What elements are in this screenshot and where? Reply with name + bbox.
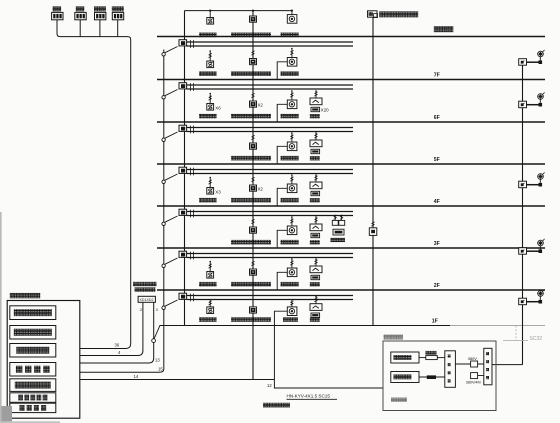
loop riser tap floor 6F [165, 90, 178, 96]
smoke detector 1F [207, 307, 214, 314]
wire from box b3 [99, 20, 101, 37]
stem smoke detector 1F [209, 299, 211, 307]
bus tick marks floor 4 [190, 168, 192, 176]
floor slab line above 6F [157, 79, 545, 81]
scan artifact bottom edge [0, 421, 60, 423]
hydrant symbol 5F [538, 174, 544, 180]
bus wire A floor 1 [187, 295, 353, 297]
wire from box b1 [56, 20, 58, 34]
bus wire B floor 7 [187, 45, 353, 47]
hydrant wire 7F [527, 104, 541, 106]
svg-text:X2: X2 [258, 102, 264, 107]
alarm bell 3F [287, 226, 297, 235]
bus wire A floor 7 [187, 41, 353, 43]
terminal box stub wires [80, 302, 143, 355]
riser bottom tap [154, 326, 160, 339]
damper module 1F [311, 313, 320, 317]
svg-text:4F: 4F [434, 199, 440, 205]
floor slab line above 7F [157, 36, 545, 38]
svg-text:X3: X3 [215, 190, 221, 195]
svg-text:XD1XD2: XD1XD2 [140, 298, 154, 302]
signal module floor 1 [179, 293, 187, 299]
hydrant symbol 2F [538, 291, 544, 297]
device name labels 1F [199, 317, 217, 322]
manual call point 6F [250, 101, 257, 107]
wire from box b2 [79, 20, 81, 37]
hydrant wire 5F [527, 184, 541, 186]
bus wire B floor 3 [187, 215, 353, 217]
unit fire pump [391, 352, 419, 363]
unit fire telephone host [10, 344, 56, 358]
manual call point 4F [250, 185, 257, 191]
floor slab line above 5F [157, 121, 545, 123]
svg-text:X6: X6 [215, 106, 221, 111]
stem bell 2F [291, 259, 293, 268]
scan artifact left edge [0, 212, 2, 423]
svg-text:36: 36 [115, 343, 120, 348]
hydrant button roof [519, 59, 527, 65]
power distribution box b2 [75, 12, 86, 19]
label pump control box [384, 335, 404, 340]
bus wire B floor 5 [187, 131, 353, 133]
title fire control center [10, 293, 41, 298]
wire riser to pump box [492, 364, 523, 366]
wire from box b4 [117, 20, 119, 37]
signal module floor 7 [179, 40, 187, 46]
loop riser tap floor 3F [165, 216, 178, 222]
stem bell 3F [291, 217, 293, 226]
stem damper 1F [315, 297, 317, 304]
junction 2F [539, 300, 543, 304]
power distribution box b3 [95, 12, 106, 19]
terminal strip 1 [445, 351, 456, 388]
svg-text:3: 3 [156, 308, 158, 312]
fire damper 6F [310, 98, 322, 105]
stem damper 2F [315, 259, 317, 266]
top feeder wire [185, 10, 292, 12]
hydrant button 5F [519, 181, 527, 188]
svg-text:X2: X2 [258, 186, 264, 191]
signal module riser [184, 11, 186, 326]
stem smoke detector 6F [209, 94, 211, 104]
damper module 4F [311, 191, 320, 195]
device name labels floor top [199, 33, 217, 38]
label above power box b2 [76, 6, 85, 11]
unit manual control panel [10, 393, 56, 403]
label buried conduit [263, 403, 290, 408]
bus tick marks floor 3 [190, 210, 192, 218]
junction 5F [539, 183, 543, 187]
terminal strip 2 [484, 348, 492, 385]
bus wire B floor 4 [187, 173, 353, 175]
node at call point riser [252, 10, 254, 12]
exhaust valve pair 3F [334, 215, 336, 221]
call point riser segment 1F [252, 300, 254, 307]
manual call point 3F [250, 227, 257, 233]
stem smoke detector 7F [209, 51, 211, 61]
signal module floor 4 [179, 167, 187, 173]
unit jockey pump [391, 372, 419, 383]
stem bell 1F [291, 300, 293, 307]
label above power box b4 [112, 6, 124, 11]
device name labels floor 7F [199, 71, 217, 76]
smoke detector 7F [207, 61, 214, 68]
stem damper 5F [315, 133, 317, 140]
node at bell stem [291, 10, 293, 12]
hydrant wire roof [527, 61, 541, 63]
signal module floor 5 [179, 125, 187, 131]
svg-text:14: 14 [134, 374, 139, 379]
alarm bell 7F [287, 58, 297, 67]
bus wire B floor 1 [187, 299, 353, 301]
alarm bell 2F [287, 268, 297, 277]
svg-text:1F: 1F [432, 319, 438, 325]
bus tick marks floor 6 [190, 83, 192, 91]
hydrant symbol roof [538, 51, 544, 57]
unit fire broadcast panel [10, 363, 56, 377]
left loop riser [80, 50, 164, 373]
unit linkage control panel [10, 326, 56, 340]
hydrant symbol 3F [538, 240, 544, 246]
stem damper 4F [315, 175, 317, 182]
svg-text:SC32: SC32 [530, 336, 543, 342]
hydrant button 3F [519, 248, 527, 255]
bus wire A floor 4 [187, 169, 353, 171]
bus wire A floor 6 [187, 84, 353, 86]
signal module floor 3 [179, 209, 187, 215]
module on trunk 3F [372, 221, 374, 228]
bus wire A floor 3 [187, 211, 353, 213]
damper module 2F [311, 275, 320, 279]
loop riser tap floor 1F [165, 300, 178, 306]
bell branch wire 7F [277, 62, 287, 80]
alarm bell 5F [287, 142, 297, 151]
label manual control line [391, 398, 407, 402]
svg-text:13: 13 [155, 358, 160, 363]
fire damper 3F [310, 224, 322, 231]
stem bell 7F [291, 49, 293, 58]
manual call point riser [252, 11, 254, 380]
manual call point 1F [250, 307, 257, 313]
svg-text:5F: 5F [434, 157, 440, 163]
smoke detector 4F [207, 188, 214, 195]
signal module floor 6 [179, 83, 187, 89]
right hydrant riser [522, 59, 524, 365]
bus wire A floor 2 [187, 253, 353, 255]
bus wire B floor 2 [187, 257, 353, 259]
damper module 3F [311, 233, 320, 237]
svg-text:7F: 7F [434, 73, 440, 79]
label KM [426, 351, 437, 355]
device name labels floor 2F [199, 282, 217, 287]
loop riser tap floor 2F [165, 258, 178, 264]
loop riser tap floor 7F [165, 47, 178, 53]
smoke detector 6F [207, 104, 214, 111]
svg-text:2: 2 [140, 308, 142, 312]
fire damper 4F [310, 182, 322, 189]
starter coil 2 [471, 373, 478, 379]
bell branch wire 4F [277, 188, 287, 206]
svg-text:380V: 380V [468, 356, 477, 361]
damper module 5F [311, 149, 320, 153]
stem smoke detector top [209, 11, 211, 18]
bus wire A floor 5 [187, 127, 353, 129]
hydrant button 2F [519, 298, 527, 305]
svg-text:X20: X20 [321, 107, 329, 112]
manual call point 5F [250, 143, 257, 149]
manual call point 7F [250, 59, 257, 65]
hydrant button 7F [519, 101, 527, 108]
device name labels floor 5F [231, 156, 271, 161]
floor slab line above 3F [157, 205, 545, 207]
unit linkage power supply [10, 379, 56, 392]
alarm bell top floor [287, 15, 297, 24]
bus tick marks floor 2 [190, 252, 192, 260]
stem smoke detector 4F [209, 178, 211, 188]
water tank trunk riser [372, 17, 374, 325]
1F floor line [160, 325, 451, 327]
label above power box b3 [94, 6, 106, 11]
fire damper 1F [310, 304, 322, 311]
svg-text:6F: 6F [434, 115, 440, 121]
device name labels floor 3F [231, 240, 271, 245]
label above power box b1 [53, 6, 62, 11]
floor slab line above 1F [157, 289, 545, 291]
alarm bell 4F [287, 184, 297, 193]
loop riser tap floor 4F [165, 174, 178, 180]
alarm bell 6F [287, 100, 297, 109]
smoke detector 2F [207, 272, 214, 279]
hydrant symbol 7F [538, 94, 544, 100]
unit main power supply [10, 403, 56, 412]
stem bell 5F [291, 133, 293, 142]
device name labels floor 4F [199, 198, 217, 203]
alarm bell 1F [287, 307, 297, 316]
broadcast wire to 1F devices [80, 379, 275, 381]
svg-text:2F: 2F [434, 283, 440, 289]
svg-text:HN-KYV-4X1.5 SC15: HN-KYV-4X1.5 SC15 [287, 394, 331, 399]
bell branch wire 2F [277, 272, 287, 290]
stem bell 4F [291, 175, 293, 184]
manual call point top floor [250, 16, 257, 22]
pump control cabinet [383, 341, 496, 411]
svg-text:15: 15 [158, 366, 163, 371]
power distribution box b4 [112, 12, 123, 19]
svg-text:380V/4M: 380V/4M [466, 380, 481, 384]
fire damper 2F [310, 266, 322, 273]
junction roof [539, 60, 543, 64]
svg-text:3F: 3F [434, 241, 440, 247]
wire trunk from power boxes to control center [57, 21, 131, 349]
flow switch water tank [368, 11, 378, 17]
bell branch wire 5F [277, 146, 287, 164]
wires terminal strip to starter [455, 363, 483, 365]
bus wire B floor 6 [187, 88, 353, 90]
label roof slab [434, 26, 454, 32]
stem damper 3F [315, 217, 317, 224]
device name labels floor 6F [199, 114, 217, 119]
loop riser tap floor 5F [165, 132, 178, 138]
corner grey box [0, 406, 12, 423]
floor slab line above 4F [157, 163, 545, 165]
starter coil 380V [471, 361, 478, 367]
label exhaust valve [331, 238, 346, 242]
control center cabinet [7, 301, 80, 419]
manual call point 2F [250, 269, 257, 275]
stem bell 6F [291, 91, 293, 100]
label above terminal box [133, 282, 157, 286]
hydrant wire 2F [527, 301, 541, 303]
bell branch wire 3F [277, 230, 287, 248]
wire jockey pump to terminal strip [419, 376, 445, 378]
smoke detector top floor [207, 18, 214, 25]
damper module 6F [311, 107, 320, 111]
signal module floor 2 [179, 251, 187, 257]
svg-text:12: 12 [267, 383, 272, 388]
label water tank room flow switch [379, 11, 418, 17]
bell branch wire 6F [277, 104, 287, 122]
terminal box XD [138, 296, 155, 302]
bell branch wire 1F to pump cable [274, 311, 383, 388]
bus tick marks floor 5 [190, 126, 192, 134]
power distribution box b1 [52, 12, 63, 19]
hydrant wire 3F [527, 250, 541, 252]
node at smoke detector stem [209, 10, 211, 12]
unit fire alarm controller [10, 306, 56, 320]
floor slab line above 2F [157, 247, 545, 249]
stem smoke detector 2F [209, 262, 211, 272]
stem bell top floor [291, 11, 293, 15]
bus tick marks floor 7 [190, 40, 192, 48]
stem damper 6F [315, 91, 317, 98]
bus tick marks floor 1 [190, 294, 192, 302]
junction 7F [539, 103, 543, 107]
fire damper 5F [310, 140, 322, 147]
junction 3F [539, 249, 543, 253]
